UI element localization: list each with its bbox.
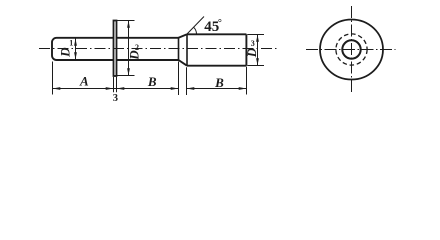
arrow D2 bottom xyxy=(127,68,130,75)
dimension D2 extension line top xyxy=(117,20,135,22)
right cylinder section bottom edge xyxy=(187,65,246,67)
right view inner circle (shaft) xyxy=(342,40,360,58)
bottom dimension line second B xyxy=(187,88,247,90)
chamfer cone top line xyxy=(179,34,188,38)
centerline of shaft (side view) xyxy=(39,48,277,50)
svg-text:B: B xyxy=(214,75,224,90)
svg-text:3: 3 xyxy=(113,93,118,104)
dimension D2 line xyxy=(128,21,130,76)
middle cylinder section top edge xyxy=(117,37,179,39)
arrow B2 left xyxy=(187,87,195,90)
extension line at shaft left end xyxy=(52,62,54,95)
extension line flange left xyxy=(113,77,115,92)
arrow A left xyxy=(53,87,61,90)
45 degree angle arc xyxy=(194,27,197,34)
arrow D3 top xyxy=(256,35,259,42)
arrow D3 bottom xyxy=(256,58,259,65)
arrow D1 bottom xyxy=(74,52,77,59)
svg-text:D: D xyxy=(244,47,259,58)
svg-text:D: D xyxy=(57,47,72,58)
dimension D3 line xyxy=(257,35,259,66)
arrow D2 top xyxy=(127,21,130,28)
arrow D1 top xyxy=(74,39,77,46)
svg-text:2: 2 xyxy=(135,43,139,52)
extension line at right end xyxy=(246,67,248,95)
svg-text:B: B xyxy=(147,74,157,89)
arrow A right xyxy=(106,87,114,90)
extension line at chamfer start xyxy=(178,62,180,96)
dimension D3 extension line top xyxy=(247,34,264,36)
right cylinder section top edge xyxy=(187,33,246,35)
svg-text:3: 3 xyxy=(251,39,255,48)
left cylinder section outline xyxy=(52,38,114,60)
extension line at chamfer end xyxy=(186,67,188,95)
flange outline xyxy=(114,21,117,77)
chamfer cone bottom line xyxy=(179,60,188,66)
middle cylinder section bottom edge xyxy=(117,59,179,61)
bottom dimension line A-3-B xyxy=(53,88,179,90)
arrow B2 right xyxy=(239,87,247,90)
dimension D1 line xyxy=(75,39,77,60)
right view vertical centerline xyxy=(351,6,353,93)
right view horizontal centerline xyxy=(306,49,396,51)
right end edge xyxy=(245,34,247,65)
arrow B1 right xyxy=(171,87,179,90)
dimension D2 extension line bottom xyxy=(117,75,135,77)
45 degree leader line xyxy=(187,17,204,35)
chamfer start edge (vertical) xyxy=(178,38,180,60)
arrow B1 left xyxy=(117,87,125,90)
svg-text:1: 1 xyxy=(69,39,73,48)
right view hidden circle (dashed) xyxy=(336,34,367,65)
right view outer circle (flange) xyxy=(320,20,383,80)
extension line flange right xyxy=(116,77,118,92)
svg-text:D: D xyxy=(126,50,141,61)
svg-text:°: ° xyxy=(218,18,222,29)
svg-text:A: A xyxy=(79,74,89,89)
dimension D3 extension line bottom xyxy=(247,65,264,67)
chamfer end edge (vertical) xyxy=(186,34,188,65)
